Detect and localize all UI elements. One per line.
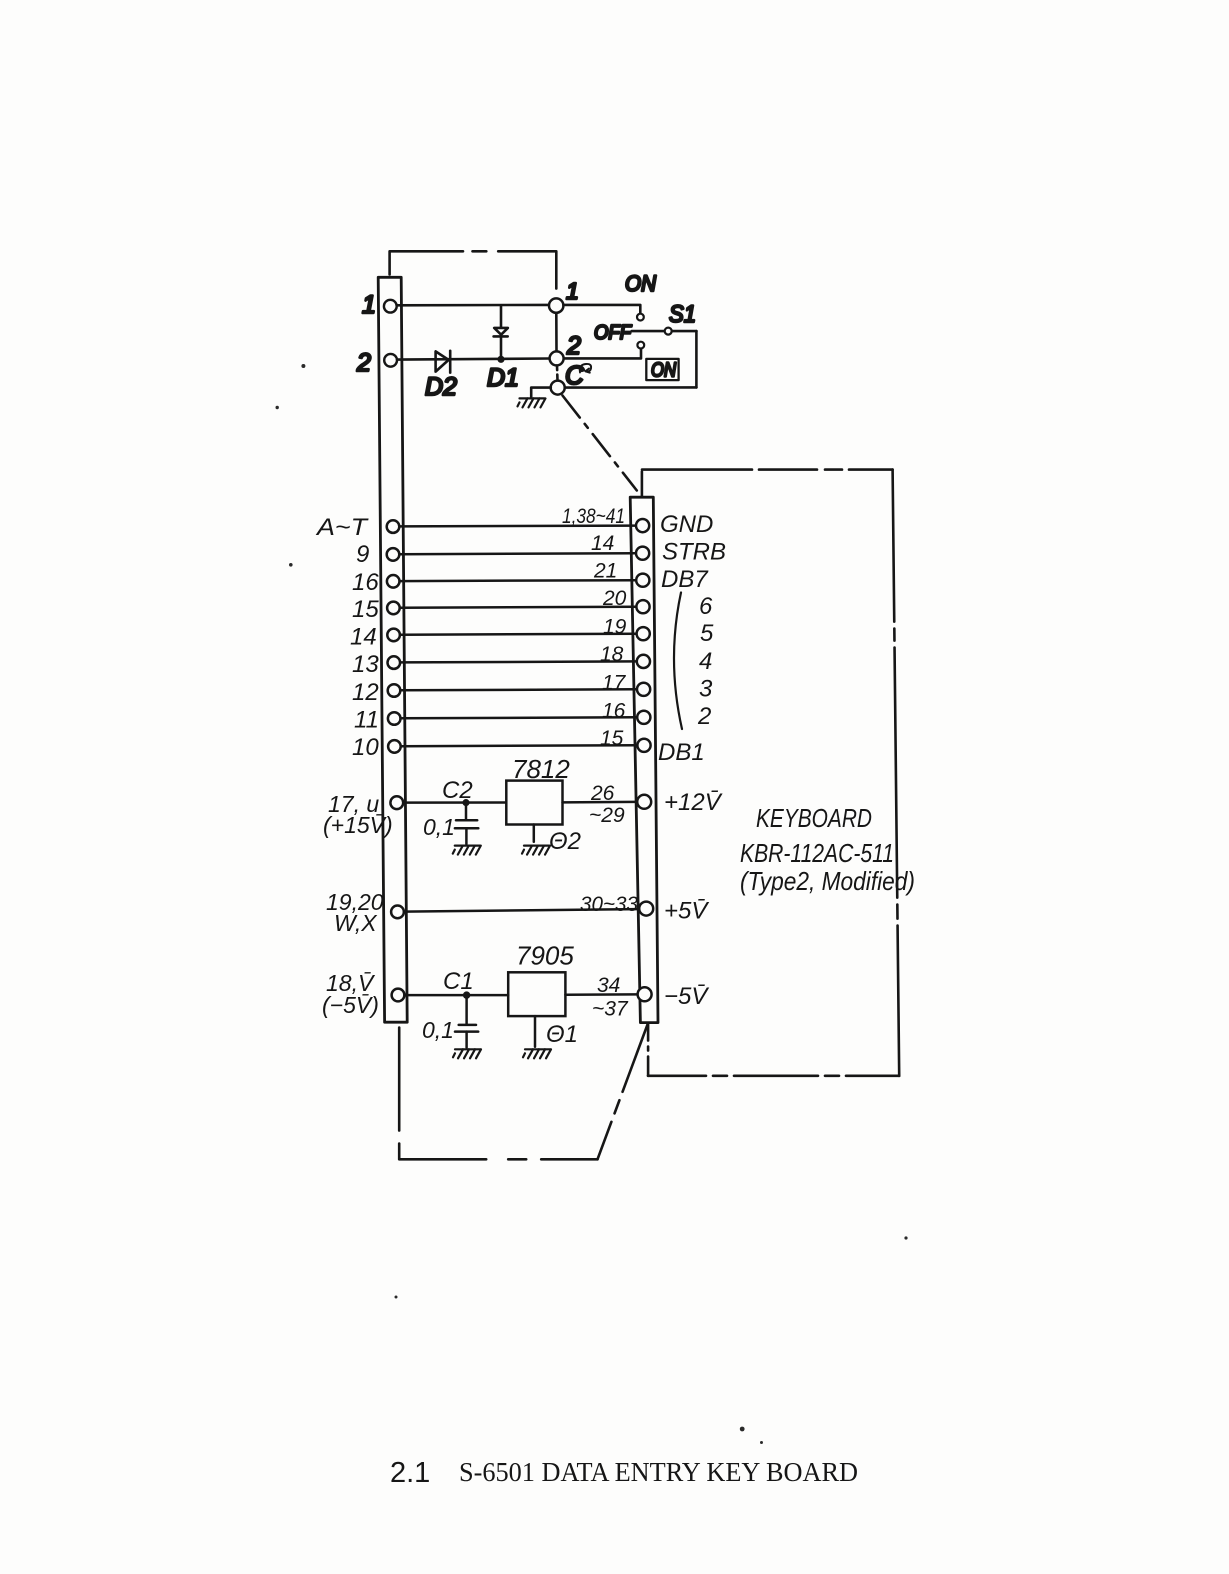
diode D1	[494, 305, 508, 361]
bracket for DB6..DB2	[674, 593, 682, 730]
svg-text:(Type2, Modified): (Type2, Modified)	[740, 866, 915, 896]
svg-text:4: 4	[699, 648, 712, 675]
wire node1 to switch contact ON	[563, 305, 640, 314]
pin STRB (J2)	[636, 547, 649, 560]
svg-text:30~33: 30~33	[580, 893, 638, 916]
wire U1 output to pin -5V	[565, 993, 637, 996]
keyboard box lower-left edge	[647, 1025, 650, 1076]
pin -5V (J2)	[638, 987, 652, 1001]
pin GND (J2)	[636, 519, 649, 532]
svg-text:7905: 7905	[516, 941, 574, 971]
svg-text:9: 9	[356, 541, 369, 568]
wire node C to right loop	[565, 386, 697, 389]
svg-text:2.1: 2.1	[390, 1457, 430, 1489]
wire row DB4	[400, 661, 637, 662]
svg-text:1: 1	[566, 278, 579, 304]
svg-text:17: 17	[602, 672, 627, 695]
svg-text:C1: C1	[443, 968, 474, 995]
svg-text:Θ2: Θ2	[549, 828, 581, 855]
wire pin1 to node 1	[397, 304, 549, 307]
svg-text:14: 14	[591, 532, 614, 555]
svg-text:16: 16	[352, 569, 379, 596]
svg-text:16: 16	[602, 700, 626, 723]
svg-text:ON: ON	[651, 360, 676, 382]
svg-text:2: 2	[697, 703, 711, 730]
capacitor C2	[455, 803, 478, 844]
pin DB1 (J2)	[637, 739, 650, 752]
svg-text:KEYBOARD: KEYBOARD	[756, 803, 872, 833]
wire row DB2	[401, 717, 638, 718]
regulator U1 7905 box	[508, 972, 565, 1016]
pin DB7 (J2)	[636, 574, 649, 587]
svg-text:OFF: OFF	[594, 322, 633, 344]
node 2 terminal	[550, 351, 564, 365]
pin 12 (J1)	[388, 684, 401, 697]
pin 17,u (J1)	[390, 796, 403, 809]
speck dot	[395, 1296, 398, 1299]
pin 10 (J1)	[388, 740, 401, 753]
svg-text:W,X: W,X	[334, 910, 378, 936]
svg-text:21: 21	[593, 560, 617, 583]
speck dot	[904, 1236, 907, 1239]
wire J2 top stub	[641, 472, 644, 497]
wire node2 to node C dashed	[556, 366, 559, 381]
wire cable boundary left vertical dash-dot	[398, 1028, 401, 1159]
wire U1 ground tab	[534, 1016, 537, 1047]
ground at node C	[518, 398, 546, 407]
pin +12V (J2)	[637, 795, 651, 809]
svg-text:ON: ON	[625, 271, 656, 296]
pin 14 (J1)	[387, 629, 400, 642]
wire S1 common to right loop	[672, 330, 697, 333]
svg-text:5: 5	[700, 620, 714, 647]
speck dot	[301, 364, 305, 368]
svg-text:19: 19	[603, 616, 627, 639]
junction C1	[464, 993, 469, 998]
pin DB4 (J2)	[637, 655, 650, 668]
svg-text:DB7: DB7	[661, 566, 709, 593]
wire U2 output to pin +12V	[563, 801, 638, 804]
wire row DB5	[400, 634, 637, 635]
pin 16 (J1)	[387, 575, 400, 588]
svg-text:(−5V̄): (−5V̄)	[322, 992, 379, 1018]
pin 15 (J1)	[387, 602, 400, 615]
ground at U1	[523, 1049, 551, 1058]
pin 18,V (J1)	[392, 989, 405, 1002]
keyboard box right edge	[893, 470, 900, 1076]
pin 2 (J1)	[384, 354, 397, 367]
wire +15V input to regulator U2	[403, 801, 506, 804]
wire row DB1	[401, 744, 638, 747]
diode D2	[436, 351, 451, 373]
wire right loop vertical	[695, 331, 698, 387]
wire OFF contact to S1 common	[632, 330, 665, 333]
pin 19,20 (J1)	[391, 906, 404, 919]
wire dash-dot diagonal node C to keyboard corner	[563, 396, 637, 491]
pin DB5 (J2)	[637, 627, 650, 640]
svg-text:+12V̄: +12V̄	[664, 789, 723, 816]
svg-text:18: 18	[600, 643, 624, 666]
wire row DB3	[400, 689, 637, 690]
svg-text:10: 10	[352, 734, 379, 761]
svg-text:1: 1	[362, 291, 376, 319]
svg-text:A~T: A~T	[315, 514, 370, 541]
label node C with curl	[565, 360, 591, 390]
pin DB2 (J2)	[637, 711, 650, 724]
svg-text:12: 12	[352, 679, 379, 706]
svg-text:6: 6	[699, 593, 713, 620]
svg-text:26: 26	[590, 782, 615, 805]
wire node2 to switch contact b	[564, 349, 641, 359]
svg-text:C: C	[565, 360, 584, 390]
svg-text:DB1: DB1	[658, 739, 705, 766]
svg-text:~37: ~37	[592, 998, 629, 1021]
wire pin2 to node 2	[397, 359, 549, 360]
svg-text:S1: S1	[669, 301, 696, 328]
wire row GND	[399, 524, 636, 527]
pin +5V (J2)	[639, 902, 653, 916]
ground at U2	[522, 846, 550, 855]
svg-text:34: 34	[597, 974, 620, 997]
pin 13 (J1)	[388, 656, 401, 669]
svg-text:11: 11	[354, 707, 379, 734]
svg-text:15: 15	[600, 727, 624, 750]
svg-text:GND: GND	[660, 511, 713, 538]
svg-text:STRB: STRB	[662, 539, 726, 566]
svg-text:D1: D1	[487, 364, 519, 392]
connector J2 right bar	[630, 497, 658, 1022]
ON position box	[646, 359, 678, 380]
pin DB6 (J2)	[636, 600, 649, 613]
pin 1 (J1)	[384, 300, 397, 313]
svg-text:1,38~41: 1,38~41	[562, 505, 625, 528]
pin DB3 (J2)	[637, 683, 650, 696]
svg-text:2: 2	[566, 332, 581, 360]
svg-text:~29: ~29	[589, 804, 625, 827]
svg-text:14: 14	[350, 624, 377, 651]
connector J1 left bar	[378, 277, 407, 1022]
switch S1 common contact	[665, 328, 672, 335]
switch S1 contact b	[637, 342, 644, 349]
pin 9 (J1)	[387, 548, 400, 561]
svg-text:15: 15	[352, 596, 379, 623]
speck dot	[276, 406, 279, 409]
svg-text:(+15V̄): (+15V̄)	[323, 812, 393, 838]
svg-text:2: 2	[356, 349, 371, 377]
svg-text:20: 20	[602, 587, 627, 610]
svg-text:7812: 7812	[512, 754, 570, 784]
node 1 terminal	[549, 298, 563, 312]
wire chassis top dash-dot boundary	[390, 251, 463, 274]
svg-text:S-6501 DATA ENTRY KEY BOARD: S-6501 DATA ENTRY KEY BOARD	[459, 1457, 858, 1487]
svg-text:3: 3	[699, 676, 713, 703]
svg-text:Θ1: Θ1	[546, 1021, 578, 1048]
wire -5V input to regulator U1	[404, 994, 508, 997]
svg-text:D2: D2	[425, 373, 457, 401]
wire node C to ground	[531, 388, 551, 397]
svg-text:−5V̄: −5V̄	[664, 983, 709, 1010]
svg-text:0,1: 0,1	[423, 814, 455, 840]
wire row STRB	[399, 553, 636, 554]
speck dot	[289, 563, 293, 567]
capacitor C1	[455, 995, 478, 1047]
speck dot	[760, 1441, 763, 1444]
keyboard box bottom edge	[648, 1075, 899, 1078]
junction C2	[464, 800, 469, 805]
svg-text:KBR-112AC-511: KBR-112AC-511	[740, 838, 894, 868]
wire row DB7	[400, 579, 637, 582]
node C terminal	[551, 381, 565, 395]
wire node1 to node2	[555, 313, 558, 351]
ground at C1	[453, 1049, 481, 1058]
ground at C2	[453, 846, 481, 855]
svg-text:0,1: 0,1	[422, 1017, 454, 1043]
wire row DB6	[400, 607, 637, 608]
keyboard box top edge	[642, 468, 893, 471]
wire cable boundary bottom dash-dot	[399, 1158, 597, 1161]
speck dot	[740, 1427, 745, 1432]
wire +5V row	[404, 909, 639, 912]
switch S1 contact a	[637, 314, 644, 321]
svg-text:C2: C2	[442, 777, 473, 804]
svg-text:+5V̄: +5V̄	[664, 898, 709, 925]
svg-text:13: 13	[352, 651, 379, 678]
pin A~T (J1)	[387, 520, 400, 533]
pin 11 (J1)	[388, 712, 401, 725]
wire U2 ground tab	[533, 825, 536, 842]
regulator U2 7812 box	[506, 781, 562, 825]
wire cable boundary diagonal dash-dot	[598, 1024, 648, 1160]
